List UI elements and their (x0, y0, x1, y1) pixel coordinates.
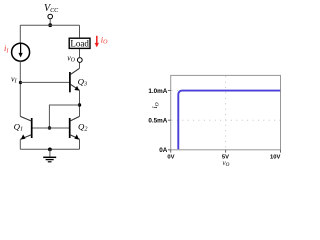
svg-text:Q3: Q3 (78, 76, 87, 87)
label iI (red) (4, 43, 9, 54)
y tick 1.0mA (168, 90, 171, 92)
svg-text:Q2: Q2 (78, 121, 87, 132)
y tick 0A (168, 149, 171, 151)
wire Q3 emitter down (79, 90, 81, 116)
transistor Q3 (70, 68, 87, 92)
label vI (11, 74, 18, 84)
svg-text:0A: 0A (159, 147, 168, 154)
wire bottom rail (20, 148, 79, 150)
label vO (67, 53, 76, 63)
wire vI to Q3 base (20, 81, 69, 83)
svg-text:iO: iO (101, 34, 108, 45)
svg-text:vO: vO (67, 53, 76, 63)
wire base rail (32, 127, 70, 129)
gridline horizontal 0.5mA (172, 119, 281, 121)
wire Q3 collector to vO (79, 62, 81, 68)
junction VCC-rail (48, 23, 52, 27)
wire Q2 emitter to rail (79, 139, 81, 149)
svg-text:10V: 10V (270, 155, 280, 161)
current source I1 arrow (19, 44, 23, 58)
label iO (red) (101, 34, 108, 45)
y axis title iO (150, 102, 160, 108)
wire emitter node to base connector (49, 105, 79, 129)
x tick 10V (280, 150, 282, 153)
wire vO to Load (79, 49, 81, 58)
y tick 0.5mA (168, 119, 171, 121)
node VCC terminal (48, 14, 53, 19)
wire Q1 emitter to rail (19, 139, 21, 149)
svg-text:1.0mA: 1.0mA (148, 88, 167, 95)
junction emitter node (78, 103, 81, 106)
svg-text:Load: Load (70, 38, 89, 48)
x axis title vO (223, 159, 230, 168)
svg-text:Q1: Q1 (14, 121, 23, 132)
svg-text:0.5mA: 0.5mA (148, 118, 167, 125)
plot frame (171, 75, 281, 149)
x tick 0 (170, 150, 172, 153)
svg-text:VCC: VCC (44, 3, 59, 14)
wire right branch top (79, 25, 81, 37)
x tick 5V (225, 150, 227, 153)
svg-text:iO: iO (150, 102, 160, 108)
gridline vertical 5V (225, 76, 227, 149)
node VCC label (44, 3, 59, 14)
arrow iO (red) (95, 36, 99, 48)
junction ground (48, 148, 52, 152)
transistor Q2 (70, 116, 88, 139)
transistor Q1 (14, 116, 32, 139)
Load box (69, 38, 90, 48)
node vO terminal (77, 58, 82, 63)
svg-text:0V: 0V (167, 155, 174, 161)
ground (43, 149, 56, 162)
svg-text:vI: vI (11, 74, 18, 84)
node vI junction (19, 81, 22, 84)
wire VCC stub (49, 19, 51, 25)
gridline horizontal 1.0mA (172, 90, 281, 92)
wire left branch lower (19, 61, 21, 116)
wire top rail (20, 24, 79, 26)
curve iO (178, 91, 280, 150)
junction base rail (48, 126, 51, 129)
svg-text:iI: iI (4, 43, 9, 54)
current source I1 circle (12, 43, 30, 61)
wire left branch upper (19, 25, 21, 43)
